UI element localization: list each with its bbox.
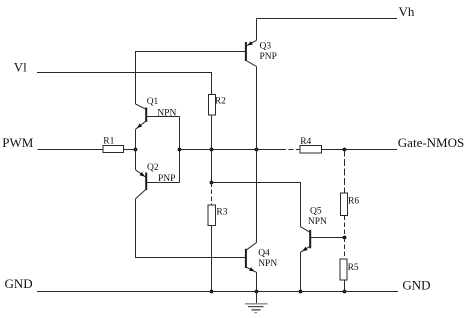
transistor Q5 [301, 227, 311, 253]
node Q4 emitter ground junction [255, 290, 259, 294]
transistor Q4 [246, 243, 257, 273]
node Q5 emitter ground junction [299, 290, 303, 294]
node R3 top junction [210, 181, 214, 185]
wire Q1 emitter to node [135, 129, 137, 149]
wire PWM to R1 [38, 149, 104, 151]
svg-text:PNP: PNP [260, 52, 277, 62]
svg-text:R1: R1 [103, 137, 114, 147]
node Q3 collector junction [255, 148, 259, 152]
node R6 top junction [343, 148, 347, 152]
wire Q4 emitter to ground rail [256, 272, 258, 291]
resistor R2 [209, 95, 216, 116]
svg-text:R6: R6 [348, 197, 359, 207]
wire Q3 emitter riser [256, 19, 258, 41]
svg-text:Q1: Q1 [147, 97, 159, 107]
wire R5 to ground rail [344, 280, 346, 292]
node emitter junction [134, 148, 138, 152]
svg-text:Q4: Q4 [258, 249, 270, 259]
wire Q1 base [147, 116, 180, 118]
wire node to Q2 emitter [135, 150, 137, 170]
svg-text:Q3: Q3 [260, 42, 272, 52]
wire R3 to ground rail [211, 226, 213, 292]
svg-text:R4: R4 [300, 137, 311, 147]
svg-text:NPN: NPN [258, 259, 277, 269]
transistor Q1 [136, 104, 147, 129]
transistor Q3 [246, 40, 257, 66]
wire base tie vertical [179, 117, 181, 183]
wire ground rail left [37, 291, 212, 293]
node R5 ground junction [343, 290, 347, 294]
resistor R6 [341, 193, 348, 216]
svg-text:Q2: Q2 [147, 163, 159, 173]
wire R3 node to Q5 collector [212, 183, 301, 227]
wire R1 to emitter node [124, 149, 136, 151]
resistor R4 [300, 146, 322, 154]
node R3 ground junction [210, 290, 214, 294]
wire ground rail right [301, 291, 399, 293]
svg-text:GND: GND [402, 278, 430, 293]
wire Q1 collector to Q3 base [136, 52, 246, 105]
svg-text:R2: R2 [215, 96, 226, 106]
wire Q3 collector to output node [256, 67, 258, 150]
svg-text:Vl: Vl [14, 59, 27, 74]
wire output line to Q3 collector node [212, 149, 257, 151]
wire R6 node to Gate-NMOS [345, 149, 398, 151]
svg-text:PWM: PWM [2, 135, 34, 150]
svg-text:Vh: Vh [399, 4, 415, 19]
wire Q5 emitter to ground rail [300, 252, 302, 291]
wire Vh rail [257, 18, 398, 20]
node base junction [178, 148, 182, 152]
wire R6 node to R6 [344, 150, 346, 194]
node divider junction [343, 236, 347, 240]
wire ground rail mid [212, 291, 301, 293]
svg-text:Gate-NMOS: Gate-NMOS [398, 135, 464, 150]
transistor Q2 [136, 170, 147, 199]
resistor R1 [103, 146, 124, 153]
wire ground stub [256, 292, 258, 304]
wire R2 to output node [211, 115, 213, 150]
wire output node to R3 node [211, 150, 213, 183]
svg-text:Q5: Q5 [310, 207, 322, 217]
wire R3 node to R3 [211, 183, 213, 206]
wire Q5 base to divider node [311, 237, 345, 239]
svg-text:R3: R3 [216, 208, 227, 218]
wire R4 to R6 node [322, 149, 345, 151]
svg-text:R5: R5 [348, 263, 359, 273]
resistor R3 [208, 205, 216, 226]
wire Vl to R2 [37, 73, 212, 95]
resistor R5 [340, 259, 347, 280]
ground symbol [245, 304, 268, 313]
node R2 output junction [210, 148, 214, 152]
wire R6 to divider node [344, 216, 346, 238]
wire output node to Q4 collector [256, 150, 258, 243]
wire Q2 collector to Q4 base [136, 199, 246, 258]
wire divider to R5 [344, 238, 346, 260]
svg-text:NPN: NPN [308, 217, 327, 227]
wire Q2 base [147, 182, 180, 184]
wire base node to output line [180, 149, 212, 151]
wire output node to R4 [257, 149, 282, 151]
svg-text:GND: GND [5, 276, 33, 291]
